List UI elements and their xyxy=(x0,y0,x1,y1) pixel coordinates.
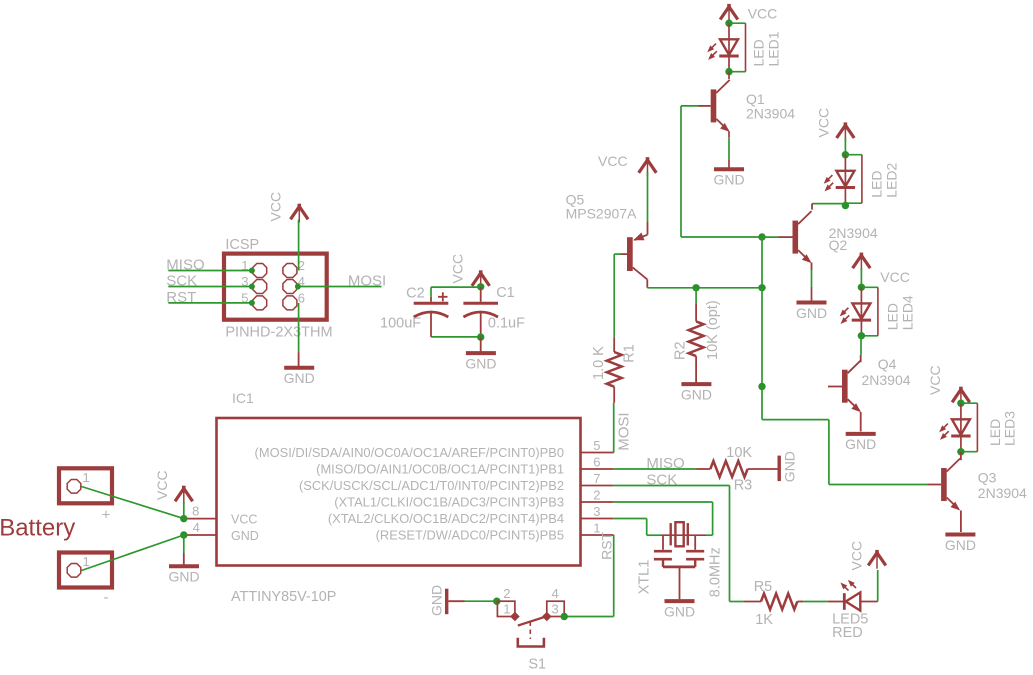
junction LED3 cathode xyxy=(957,448,964,455)
wire Q1 base stub xyxy=(698,105,711,107)
pin 2 stub xyxy=(581,501,614,503)
power VCC symbol (battery) xyxy=(175,486,193,519)
svg-text:0.1uF: 0.1uF xyxy=(488,316,525,332)
LED D-LED1 xyxy=(707,23,738,71)
wire to GND (C1) xyxy=(480,337,482,351)
wire Q1 emitter to GND xyxy=(728,131,730,167)
svg-text:VCC: VCC xyxy=(598,153,628,169)
label C1 xyxy=(496,285,515,301)
pin number 7 xyxy=(593,471,600,486)
pin 2 label xyxy=(334,495,564,510)
svg-text:RED: RED xyxy=(832,625,863,641)
pin 1 label xyxy=(376,528,564,543)
svg-text:6: 6 xyxy=(593,455,600,470)
ground GND (R3, sideways) xyxy=(778,451,798,482)
wire R1 bottom to pin5 xyxy=(613,387,616,453)
LED D-LED5 xyxy=(828,592,878,610)
power VCC symbol (LED2) xyxy=(837,122,855,154)
transistor Q1 2N3904 xyxy=(711,80,730,132)
svg-text:2N3904: 2N3904 xyxy=(746,106,795,122)
pin number 5 xyxy=(241,290,248,305)
pin number 1 (bat-) xyxy=(83,554,90,569)
pin 7 stub xyxy=(581,485,614,487)
power VCC symbol (LED4) xyxy=(853,253,871,288)
svg-text:MISO: MISO xyxy=(646,455,684,472)
switch S1 pins 4/3 xyxy=(547,601,564,616)
junction caps gnd xyxy=(477,333,484,340)
wire pin4 to GND xyxy=(183,535,185,565)
svg-text:RST: RST xyxy=(599,531,615,559)
label RST (vertical) xyxy=(599,531,615,559)
wire caps bottom xyxy=(431,312,481,337)
junction VCC caps xyxy=(477,283,484,290)
svg-text:GND: GND xyxy=(168,569,199,585)
junction LED1 anode xyxy=(725,20,732,27)
pin 7 label xyxy=(299,478,564,493)
label GND pin name xyxy=(231,529,259,543)
wire R2 top xyxy=(695,288,697,322)
svg-text:MPS2907A: MPS2907A xyxy=(566,206,637,222)
label PINHD-2X3THM xyxy=(225,324,332,340)
label VCC (battery) xyxy=(154,470,170,500)
svg-text:ATTINY85V-10P: ATTINY85V-10P xyxy=(231,589,336,605)
pad ICSP pin 4 xyxy=(283,280,297,294)
svg-text:10K: 10K xyxy=(726,445,752,461)
pad ICSP pin 1 xyxy=(253,264,267,278)
switch S1 contact right xyxy=(542,612,552,622)
wire SCK to R5 xyxy=(730,601,744,603)
wire R5 left lead xyxy=(744,601,761,603)
resonator cap left xyxy=(654,535,672,567)
transistor Q3 2N3904 xyxy=(941,459,960,511)
wire Q4 emitter to GND xyxy=(860,412,862,431)
junction collector bus xyxy=(758,284,765,291)
svg-text:Q2: Q2 xyxy=(829,237,848,253)
crystal XTL1 body xyxy=(671,522,688,546)
switch S1 plunger dashes xyxy=(529,622,531,640)
svg-text:5: 5 xyxy=(593,438,600,453)
svg-text:GND: GND xyxy=(681,386,712,402)
svg-text:3: 3 xyxy=(552,602,559,617)
svg-text:LED3: LED3 xyxy=(1002,411,1018,446)
ground GND (Q1) xyxy=(713,169,744,187)
label RST xyxy=(166,289,196,306)
wire battery+ to pin8 xyxy=(82,487,184,519)
pin 5 stub xyxy=(581,452,614,454)
wire R1 top xyxy=(613,254,615,352)
label MISO xyxy=(166,257,204,274)
label VCC (LED4) xyxy=(880,269,910,285)
wire resonator to GND xyxy=(679,567,681,599)
label Q3 2N3904 xyxy=(978,470,1027,502)
svg-text:1.0 K: 1.0 K xyxy=(591,346,607,380)
svg-text:VCC: VCC xyxy=(849,541,865,571)
svg-text:RST: RST xyxy=(166,289,196,306)
label C1 value 0.1uF xyxy=(488,316,525,332)
wire Q2 base net xyxy=(762,236,793,238)
capacitor C1 xyxy=(463,303,498,317)
label VCC (ICSP) xyxy=(267,192,283,222)
pin 1 stub xyxy=(581,534,614,536)
junction pin4 xyxy=(180,531,187,538)
pin number 1 (S1) xyxy=(503,602,510,617)
wire Q5 base stub xyxy=(614,253,627,255)
capacitor C1 lead xyxy=(480,287,482,302)
wire LED1 cathode to Q1 collector xyxy=(728,72,730,80)
wire base bus vertical xyxy=(761,237,763,288)
svg-text:-: - xyxy=(104,589,109,606)
resistor R3 xyxy=(710,461,747,477)
power VCC symbol (LED3) xyxy=(952,387,970,406)
wire R3 right lead xyxy=(748,468,778,470)
svg-text:C1: C1 xyxy=(496,285,515,301)
junction S1 pin3 xyxy=(561,613,568,620)
wire MISO net xyxy=(614,468,697,470)
svg-text:GND: GND xyxy=(782,451,798,482)
wire S1 gnd lead xyxy=(448,600,496,602)
label VCC (LED1) xyxy=(748,6,778,22)
wire Q5 collector bus xyxy=(647,287,762,289)
wire R3 left lead xyxy=(697,468,711,470)
junction base bus top xyxy=(758,233,765,240)
junction pin8 xyxy=(180,515,187,522)
resistor R1 xyxy=(607,352,622,387)
transistor Q5 MPS2907A xyxy=(627,233,648,280)
svg-text:LED2: LED2 xyxy=(884,162,900,197)
pad battery + pin 1 xyxy=(67,480,81,494)
label R5 value 1K xyxy=(755,612,773,628)
label R1 xyxy=(622,344,638,363)
power VCC symbol (LED5) xyxy=(868,550,886,569)
label R3 xyxy=(734,477,753,493)
svg-text:8: 8 xyxy=(192,504,199,519)
svg-text:VCC: VCC xyxy=(231,513,257,527)
svg-text:8.0MHz: 8.0MHz xyxy=(708,547,724,597)
pin number 3 xyxy=(241,274,248,289)
label VCC (C1) xyxy=(450,254,466,284)
pin 6 stub xyxy=(581,468,614,470)
svg-text:LED: LED xyxy=(751,39,767,66)
svg-text:(RESET/DW/ADC0/PCINT5)PB5: (RESET/DW/ADC0/PCINT5)PB5 xyxy=(376,528,564,543)
pad ICSP pin 2 xyxy=(283,264,297,278)
svg-text:LED1: LED1 xyxy=(766,31,782,66)
ground GND (C1) xyxy=(465,353,496,371)
connector battery - box xyxy=(59,553,112,588)
junction S1 pin2 xyxy=(493,598,500,605)
wire LED4 parallel bracket xyxy=(861,287,878,336)
wire Q5 collector lead xyxy=(646,279,648,287)
svg-text:ICSP: ICSP xyxy=(225,237,259,253)
svg-text:Battery: Battery xyxy=(0,515,75,542)
svg-text:SCK: SCK xyxy=(646,472,677,489)
svg-text:GND: GND xyxy=(845,436,876,452)
svg-text:XTL1: XTL1 xyxy=(636,560,652,595)
svg-text:Q1: Q1 xyxy=(746,91,765,107)
svg-text:1: 1 xyxy=(83,470,90,485)
wire LED2 cathode to Q2 collector xyxy=(812,204,845,210)
label Battery xyxy=(0,515,75,542)
pin number 2 xyxy=(298,258,305,273)
LED5 light arrows xyxy=(840,580,856,591)
svg-text:2: 2 xyxy=(593,488,600,503)
pin number 8 xyxy=(192,504,199,519)
resistor R2 xyxy=(689,321,704,356)
wire C2 bottom xyxy=(430,312,432,337)
svg-text:S1: S1 xyxy=(528,657,546,673)
svg-text:GND: GND xyxy=(664,603,695,619)
wire Q3 emitter to GND xyxy=(960,511,962,533)
label C2 value 100uF xyxy=(380,316,421,332)
label LED5 xyxy=(832,612,868,628)
junction LED3 anode xyxy=(957,400,964,407)
label VCC (LED5) xyxy=(849,541,865,571)
power VCC symbol (C1) xyxy=(472,270,490,289)
wire MISO to ICSP xyxy=(168,268,255,274)
pin 8 stub xyxy=(186,518,217,520)
svg-text:10K (opt): 10K (opt) xyxy=(705,300,721,360)
junction LED4 cathode xyxy=(858,332,865,339)
pin number 3 (S1) xyxy=(552,602,559,617)
pin number 1 xyxy=(241,258,248,273)
label MOSI net (vertical) xyxy=(616,412,633,450)
resonator cap right xyxy=(686,535,704,567)
ground GND (XTL1) xyxy=(664,601,695,619)
switch S1 contact left xyxy=(510,612,520,622)
pin number 4 xyxy=(193,520,200,535)
pad battery - pin 1 xyxy=(67,564,81,578)
svg-text:2N3904: 2N3904 xyxy=(862,372,911,388)
wire PB4 to resonator xyxy=(614,519,661,536)
ground GND (battery) xyxy=(168,566,199,584)
power VCC symbol (ICSP) xyxy=(291,204,309,271)
pin number 2 (S1) xyxy=(503,586,510,601)
label SCK xyxy=(166,273,197,290)
svg-text:VCC: VCC xyxy=(816,108,832,138)
label IC1 xyxy=(232,390,254,406)
resistor R5 xyxy=(761,594,797,610)
LED D-LED4 xyxy=(840,287,871,336)
svg-text:C2: C2 xyxy=(406,285,425,301)
svg-text:7: 7 xyxy=(593,471,600,486)
pin number 2 xyxy=(593,488,600,503)
svg-text:VCC: VCC xyxy=(154,470,170,500)
svg-text:R3: R3 xyxy=(734,477,753,493)
svg-text:4: 4 xyxy=(193,520,200,535)
svg-text:GND: GND xyxy=(465,355,496,371)
label 8.0MHz xyxy=(708,547,724,597)
label Q2 2N3904 xyxy=(829,225,878,253)
label R3 value 10K xyxy=(726,445,752,461)
junction LED1 cathode xyxy=(725,68,732,75)
svg-text:GND: GND xyxy=(284,370,315,386)
pad ICSP pin 6 xyxy=(283,296,297,310)
svg-text:2N3904: 2N3904 xyxy=(978,485,1027,501)
connector ICSP box xyxy=(224,254,327,320)
pin number 1 xyxy=(593,521,600,536)
label Q4 2N3904 xyxy=(862,356,911,388)
svg-text:Q4: Q4 xyxy=(878,356,897,372)
label VCC (LED3) xyxy=(927,365,943,395)
LED D-LED3 xyxy=(939,403,970,452)
svg-text:+: + xyxy=(102,507,111,524)
resonator bottom bar xyxy=(663,566,695,569)
wire R2 bottom xyxy=(695,356,697,382)
wire MOSI from ICSP xyxy=(295,284,382,290)
label ATTINY85V-10P xyxy=(231,589,336,605)
svg-text:VCC: VCC xyxy=(267,192,283,222)
pin number 3 xyxy=(593,504,600,519)
label Q5 MPS2907A xyxy=(566,192,637,222)
wire Q5 emitter lead xyxy=(647,221,649,234)
pin number 6 xyxy=(298,290,305,305)
svg-text:3: 3 xyxy=(593,504,600,519)
svg-text:4: 4 xyxy=(552,586,559,601)
wire RST net xyxy=(564,535,614,617)
svg-text:100uF: 100uF xyxy=(380,316,421,332)
svg-text:1: 1 xyxy=(83,554,90,569)
transistor Q4 2N3904 xyxy=(842,360,861,412)
svg-text:1K: 1K xyxy=(755,612,773,628)
label XTL1 xyxy=(636,560,652,595)
label battery plus xyxy=(102,507,111,524)
svg-text:PINHD-2X3THM: PINHD-2X3THM xyxy=(225,324,332,340)
pad ICSP pin 5 xyxy=(253,296,267,310)
label LED LED4 xyxy=(885,295,916,330)
switch S1 pins 2/1 xyxy=(497,601,515,616)
svg-text:1: 1 xyxy=(503,602,510,617)
svg-text:SCK: SCK xyxy=(166,273,197,290)
svg-text:IC1: IC1 xyxy=(232,390,254,406)
svg-text:(XTAL2/CLKO/OC1B/ADC2/PCINT4)P: (XTAL2/CLKO/OC1B/ADC2/PCINT4)PB4 xyxy=(328,511,564,526)
svg-text:(MOSI/DI/SDA/AIN0/OC0A/OC1A/AR: (MOSI/DI/SDA/AIN0/OC0A/OC1A/AREF/PCINT0)… xyxy=(255,445,564,460)
wire bus to Q3 base xyxy=(762,387,927,485)
svg-text:GND: GND xyxy=(713,172,744,188)
svg-text:R2: R2 xyxy=(673,341,689,360)
wire bus down to Q4 base xyxy=(761,288,763,387)
svg-text:R1: R1 xyxy=(622,344,638,363)
pin 3 label xyxy=(328,511,564,526)
svg-text:GND: GND xyxy=(429,585,445,616)
pin number 4 (S1) xyxy=(552,586,559,601)
svg-text:LED: LED xyxy=(869,170,885,197)
wire LED2 parallel bracket xyxy=(845,155,862,204)
pin 3 stub xyxy=(581,518,614,520)
wire LED1 parallel bracket xyxy=(729,23,746,71)
ground GND (Q2) xyxy=(796,303,827,321)
label R2 value 10K (opt) xyxy=(705,300,721,360)
label C2 xyxy=(406,285,425,301)
svg-text:MISO: MISO xyxy=(166,257,204,274)
svg-text:LED4: LED4 xyxy=(900,295,916,330)
junction LED2 anode xyxy=(842,151,849,158)
pin 4 stub xyxy=(186,534,217,536)
pin number 4 xyxy=(298,274,305,289)
wire LED4 cathode to Q4 collector xyxy=(860,336,862,362)
svg-text:(SCK/USCK/SCL/ADC1/T0/INT0/PCI: (SCK/USCK/SCL/ADC1/T0/INT0/PCINT2)PB2 xyxy=(299,478,564,493)
svg-text:VCC: VCC xyxy=(880,269,910,285)
ground GND (Q3) xyxy=(945,535,976,553)
label ICSP xyxy=(225,237,259,253)
label LED5 value RED xyxy=(832,625,863,641)
svg-text:VCC: VCC xyxy=(748,6,778,22)
IC IC1 ATTINY85 box xyxy=(217,418,581,566)
wire Q1 base net xyxy=(681,106,762,237)
pin number 5 xyxy=(593,438,600,453)
power VCC symbol (Q5) xyxy=(639,157,657,221)
junction Q4 base tap xyxy=(758,383,765,390)
capacitor C2 lead xyxy=(430,297,432,302)
pin 5 label xyxy=(255,445,564,460)
label LED LED1 xyxy=(751,31,782,66)
transistor Q2 2N3904 xyxy=(793,211,812,263)
label SCK (net) xyxy=(646,472,677,489)
wire LED3 cathode to Q3 collector xyxy=(960,452,962,461)
wire SCK to ICSP xyxy=(168,284,255,290)
wire SCK net xyxy=(614,486,730,602)
label battery minus xyxy=(104,589,109,606)
power VCC symbol (LED1) xyxy=(720,4,738,23)
switch S1 actuator xyxy=(518,638,544,647)
pin number 1 (bat+) xyxy=(83,470,90,485)
svg-text:(MISO/DO/AIN1/OC0B/OC1A/PCINT1: (MISO/DO/AIN1/OC0B/OC1A/PCINT1)PB1 xyxy=(316,462,564,477)
label R2 xyxy=(673,341,689,360)
capacitor C2 xyxy=(414,292,449,317)
svg-text:VCC: VCC xyxy=(450,254,466,284)
label S1 xyxy=(528,657,546,673)
svg-text:LED: LED xyxy=(885,303,901,330)
svg-text:VCC: VCC xyxy=(927,365,943,395)
wire RST to ICSP xyxy=(168,300,255,306)
wire R5 to LED5 xyxy=(797,601,828,603)
label VCC (LED2) xyxy=(816,108,832,138)
svg-text:MOSI: MOSI xyxy=(348,273,386,290)
junction R2 tap xyxy=(692,284,699,291)
wire LED5 to VCC xyxy=(877,570,879,602)
svg-text:GND: GND xyxy=(945,537,976,553)
label R5 xyxy=(754,579,773,595)
svg-text:Q3: Q3 xyxy=(978,470,997,486)
wire Q2 emitter to GND xyxy=(811,263,813,301)
junction LED2 cathode xyxy=(842,202,849,209)
wire Q3 base stub xyxy=(927,484,941,486)
connector battery + box xyxy=(59,468,112,503)
ground GND (S1, sideways) xyxy=(429,585,449,616)
wire LED3 parallel bracket xyxy=(961,403,978,452)
svg-text:(XTAL1/CLKI/OC1B/ADC3/PCINT3)P: (XTAL1/CLKI/OC1B/ADC3/PCINT3)PB3 xyxy=(334,495,564,510)
svg-text:GND: GND xyxy=(796,305,827,321)
ground GND (R2) xyxy=(681,384,712,402)
label VCC (Q5) xyxy=(598,153,628,169)
LED D-LED2 xyxy=(824,155,855,204)
label VCC pin name xyxy=(231,513,257,527)
wire PB3 to resonator xyxy=(614,502,713,535)
ground GND (Q4) xyxy=(845,434,876,452)
svg-text:R5: R5 xyxy=(754,579,773,595)
label LED LED3 xyxy=(987,411,1018,446)
junction LED4 anode xyxy=(858,284,865,291)
pad ICSP pin 3 xyxy=(253,280,267,294)
label Q1 2N3904 xyxy=(746,91,795,122)
label LED LED2 xyxy=(869,162,900,197)
svg-text:MOSI: MOSI xyxy=(616,412,633,450)
pin number 6 xyxy=(593,455,600,470)
wire Q4 base stub xyxy=(828,386,842,388)
label R1 value 1.0 K xyxy=(591,346,607,380)
label MOSI xyxy=(348,273,386,290)
svg-text:2: 2 xyxy=(503,586,510,601)
wire battery- to pin4 xyxy=(82,535,184,571)
svg-text:GND: GND xyxy=(231,529,259,543)
